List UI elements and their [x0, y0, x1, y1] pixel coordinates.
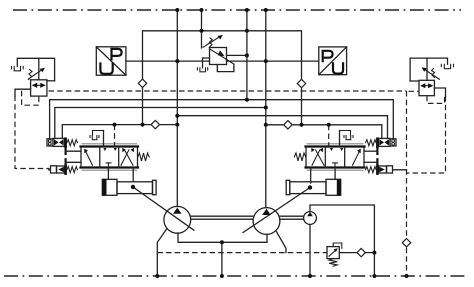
wire: twin pressure lines between pumps	[191, 215, 253, 217]
valve V5 return spring (right side)	[138, 153, 149, 161]
pressure relief valve R3 (top center)	[197, 35, 247, 72]
wire: servo link diagonal C1 to pump P1	[133, 187, 194, 230]
wire: relief R4 to diamond M5	[339, 252, 357, 254]
wire: bridge line with end drops	[143, 31, 302, 125]
valve V6 pilot line from bus D (dashed)	[328, 125, 330, 147]
wire: bus line A	[50, 100, 394, 140]
wire: relief R3 output vertical V4	[246, 10, 248, 100]
wire: pump P1 case drain to pump P2	[178, 233, 267, 242]
wire: transducer line right part	[227, 60, 319, 62]
machine boundary bottom dash-dot line	[4, 275, 465, 277]
wire: gauge G1 top line over to right drop	[310, 205, 374, 276]
measuring point diamond M4	[284, 121, 292, 129]
dashed enclosure top edge right stub to relief R2	[409, 90, 420, 92]
wire: bus line D right	[266, 125, 382, 139]
dashed enclosure top edge	[49, 90, 407, 92]
valve V6 return spring (left side)	[294, 153, 305, 161]
directional valve V5 body (left)	[81, 144, 139, 170]
wire: drain branch to boundary	[221, 242, 223, 276]
wire: pump P1 suction line to boundary	[157, 229, 166, 276]
measuring point diamond M3	[151, 120, 159, 128]
proportional solenoid pilot S4 (right valve, lower)	[364, 158, 407, 175]
pressure relief valve R1 (left edge)	[12, 58, 55, 105]
valve V5 pilot line from bus D (dashed)	[114, 125, 116, 147]
wire: valve V6 to cylinder C2 ports	[310, 168, 312, 184]
pressure relief valve R2 (right edge)	[410, 58, 453, 103]
dashed enclosure right inner edge from relief R2	[407, 96, 446, 173]
measuring point diamond M1	[138, 79, 146, 87]
variable displacement pump P2 (right)	[253, 208, 280, 235]
servo cylinder C2 (right)	[286, 179, 341, 195]
wire: twin pressure lines pump P2 to gauge G1	[280, 215, 304, 217]
wire: right pump supply vertical V2	[265, 10, 267, 208]
wire: servo link diagonal C2 to pump P2	[243, 188, 310, 233]
wire: gauge G1 bottom line to boundary	[309, 224, 311, 276]
wire: valve V5 to cylinder C1 ports	[107, 168, 109, 180]
wire: pump P2 suction diagonal	[277, 232, 287, 253]
valve V5 tank symbol (top)	[90, 131, 104, 147]
servo cylinder C1 (left)	[102, 179, 156, 195]
wire: bus line D	[62, 125, 177, 139]
variable displacement pump P1 (left)	[164, 206, 191, 233]
pressure transducer P/U box B2	[319, 47, 347, 75]
wire: bus line B	[55, 108, 266, 139]
measuring point diamond M5	[357, 248, 365, 256]
proportional solenoid pilot S2 (left valve, lower)	[49, 158, 82, 175]
dashed enclosure right edge (down to bottom border)	[406, 91, 408, 276]
machine boundary top dash-dot line	[13, 9, 461, 11]
wire: transducer line UP box to PU box	[126, 60, 210, 62]
directional valve V6 body (right)	[306, 144, 365, 170]
wire: bus line C	[177, 116, 387, 139]
proportional solenoid pilot S1 (left valve, upper)	[47, 137, 81, 155]
dashed enclosure left edge	[15, 96, 50, 169]
pressure relief valve R4 (bottom right)	[327, 243, 342, 266]
measuring point diamond M6	[402, 239, 410, 247]
measuring point diamond M2	[297, 79, 305, 87]
wire: relief R3 vent vertical V3	[201, 10, 203, 48]
proportional solenoid pilot S3 (right valve, upper)	[364, 137, 396, 155]
pressure transducer U/P box B1	[96, 47, 126, 75]
dashed drain line above bottom area	[157, 252, 327, 254]
wire: diamond M5 to right drop junction	[366, 252, 375, 254]
wire: left pump supply vertical V1	[176, 10, 178, 207]
charge pump G1	[304, 212, 317, 225]
valve V6 tank symbol (top)	[340, 131, 354, 147]
